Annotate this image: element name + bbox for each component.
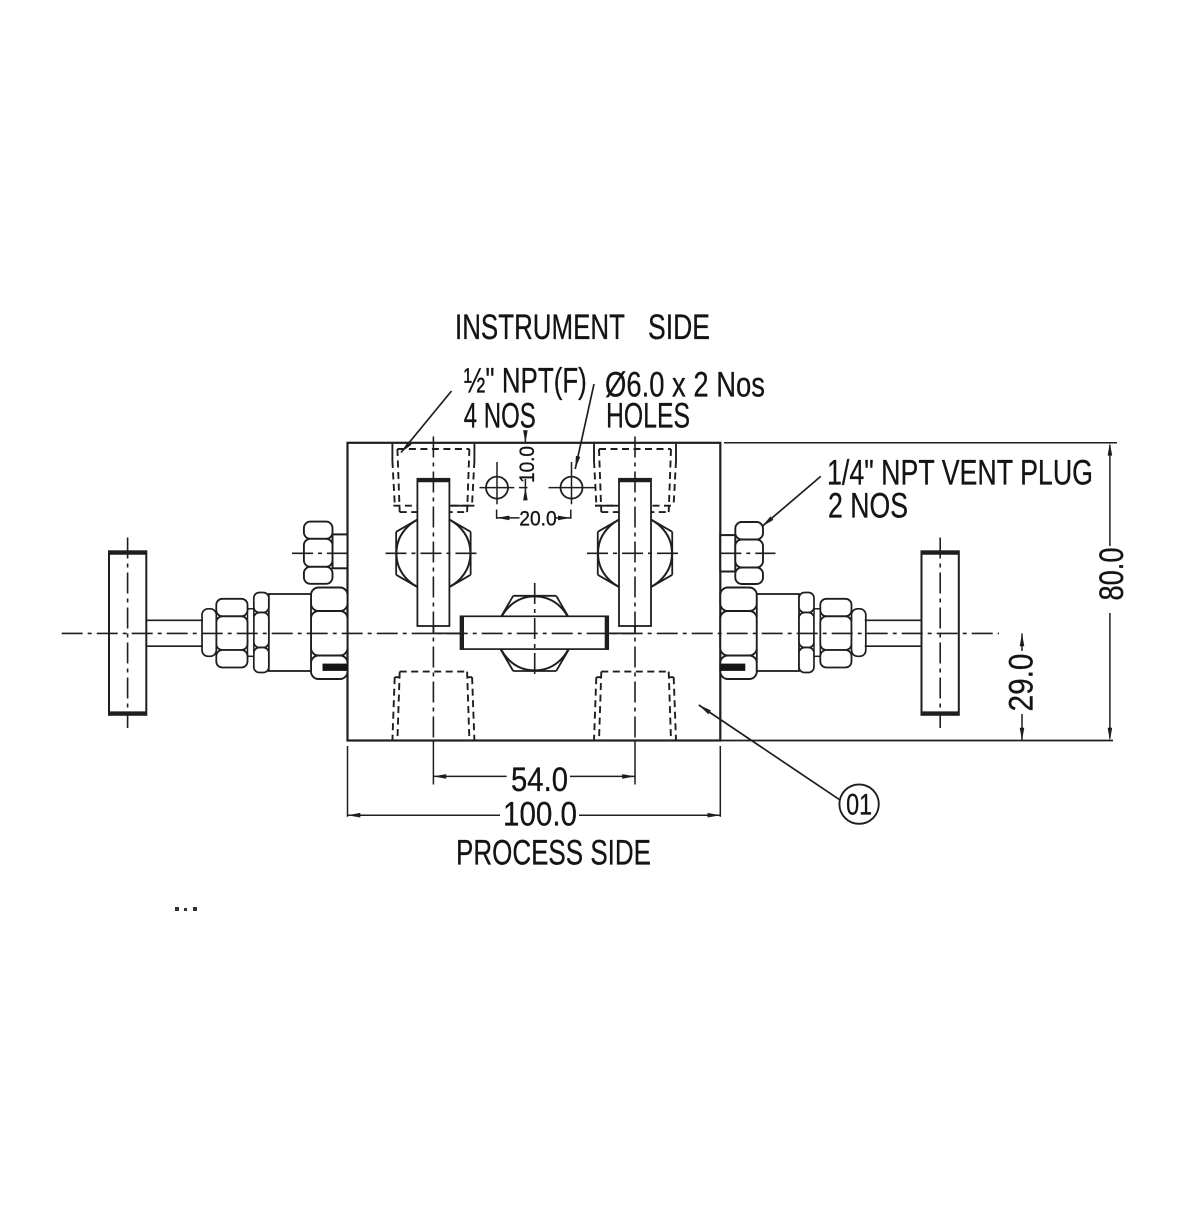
svg-text:54.0: 54.0 — [511, 761, 568, 799]
centerline equalizer vertical — [534, 583, 536, 679]
washer left — [248, 609, 254, 657]
centerline left column vertical — [432, 437, 434, 741]
dimension 100.0 — [348, 746, 721, 817]
arrow dim54 left — [433, 774, 446, 779]
gland nut hex left — [216, 599, 247, 617]
dimension 54.0 — [433, 775, 635, 777]
manifold body block — [348, 443, 721, 741]
svg-text:2 NOS: 2 NOS — [828, 487, 908, 526]
leader holes label — [575, 384, 594, 469]
T-handle right — [922, 551, 959, 715]
gland cap right — [852, 609, 866, 657]
leader balloon 01 — [699, 705, 841, 800]
valve body right — [757, 594, 799, 671]
arrow dim54 right — [622, 774, 635, 779]
connector edge left — [433, 626, 460, 633]
gland cap left — [202, 609, 216, 657]
svg-text:10.0: 10.0 — [516, 446, 539, 483]
valve V2 handle bar (edge view, vertical) — [619, 479, 651, 626]
valve V2 bonnet hexagon top-right (face view) — [598, 510, 673, 596]
mounting hole H2 — [549, 462, 595, 504]
leader vent plug label — [762, 476, 821, 526]
port P2 top-right 1/2 NPT dashed — [594, 449, 676, 512]
arrow leader balloon — [699, 705, 711, 714]
valve body left — [269, 594, 311, 671]
arrow dim10 top — [523, 430, 528, 443]
valve V1 handle bar (edge view, vertical) — [417, 479, 449, 626]
mounting hole H1 — [480, 462, 528, 504]
bonnet hex nut right — [720, 588, 757, 612]
svg-text:½" NPT(F): ½" NPT(F) — [464, 362, 587, 401]
packing flange left — [254, 593, 269, 613]
svg-text:4 NOS: 4 NOS — [464, 397, 536, 436]
packing flange right — [799, 593, 814, 613]
svg-text:PROCESS SIDE: PROCESS SIDE — [456, 834, 651, 873]
vent plug left 1/4 NPT — [304, 522, 348, 584]
arrow dim20 right — [558, 516, 571, 521]
extension line 54 left — [432, 741, 434, 785]
svg-text:SIDE: SIDE — [648, 308, 710, 347]
stem left — [146, 620, 203, 646]
arrowheads — [348, 430, 1113, 817]
centerline T-handle right — [939, 538, 941, 729]
valve V3 handle bar (edge view, horizontal) — [461, 616, 609, 649]
centerline right column vertical — [634, 437, 636, 741]
arrow dim20 left — [497, 516, 510, 521]
dimension 20.0 — [497, 510, 571, 519]
centerline hexagon left horizontal — [386, 552, 482, 554]
svg-text:80.0: 80.0 — [1093, 548, 1131, 601]
dimension 10.0 — [524, 434, 526, 496]
valve V1 bonnet hexagon top-left (face view) — [396, 510, 471, 596]
dimension 80.0 — [720, 443, 1117, 741]
bonnet hex nut left — [311, 588, 348, 612]
svg-text:HOLES: HOLES — [606, 397, 690, 436]
dimension 29.0 — [1021, 633, 1023, 740]
arrow dim29 bottom — [1020, 728, 1025, 741]
vent plug right 1/4 NPT — [720, 522, 763, 584]
centerline vent plug left — [292, 552, 348, 554]
arrow leader port — [401, 441, 412, 452]
arrow dim100 right — [708, 813, 721, 818]
connector edge right — [608, 626, 635, 633]
stem right — [865, 620, 922, 646]
port P3 bottom-left 1/2 NPT dashed — [392, 672, 474, 741]
T-handle left — [109, 551, 146, 715]
washer right — [814, 609, 820, 657]
valve V3 equalizer bonnet hexagon center (face view) — [491, 596, 578, 671]
arrow leader holes — [575, 456, 580, 469]
arrow leader vent — [762, 516, 773, 526]
gland nut hex right — [820, 599, 851, 617]
arrow dim100 left — [348, 813, 361, 818]
extension line 54 right — [634, 741, 636, 785]
port P4 bottom-right 1/2 NPT dashed — [594, 672, 676, 741]
arrow dim80 top — [1108, 443, 1113, 456]
arrow dim29 top — [1020, 633, 1025, 646]
centerline T-handle left — [127, 538, 129, 729]
black vent slot right — [720, 664, 745, 671]
left isolate valve assembly — [202, 588, 348, 680]
centerline vent plug right — [720, 552, 775, 554]
svg-text:01: 01 — [846, 789, 872, 822]
svg-text:100.0: 100.0 — [503, 796, 577, 834]
leader port label — [401, 391, 452, 453]
black vent slot left — [323, 664, 348, 671]
port P1 top-left 1/2 NPT dashed — [392, 449, 474, 512]
arrow dim80 bottom — [1108, 728, 1113, 741]
svg-text:INSTRUMENT: INSTRUMENT — [455, 308, 625, 347]
stray dots — [175, 907, 197, 911]
arrow dim10 bottom — [523, 488, 528, 501]
right isolate valve assembly — [720, 588, 866, 680]
balloon circle 01 — [839, 784, 878, 823]
centerline main horizontal — [62, 632, 999, 634]
svg-text:29.0: 29.0 — [1003, 654, 1041, 712]
svg-text:20.0: 20.0 — [519, 508, 557, 531]
centerline hexagon right horizontal — [587, 552, 683, 554]
